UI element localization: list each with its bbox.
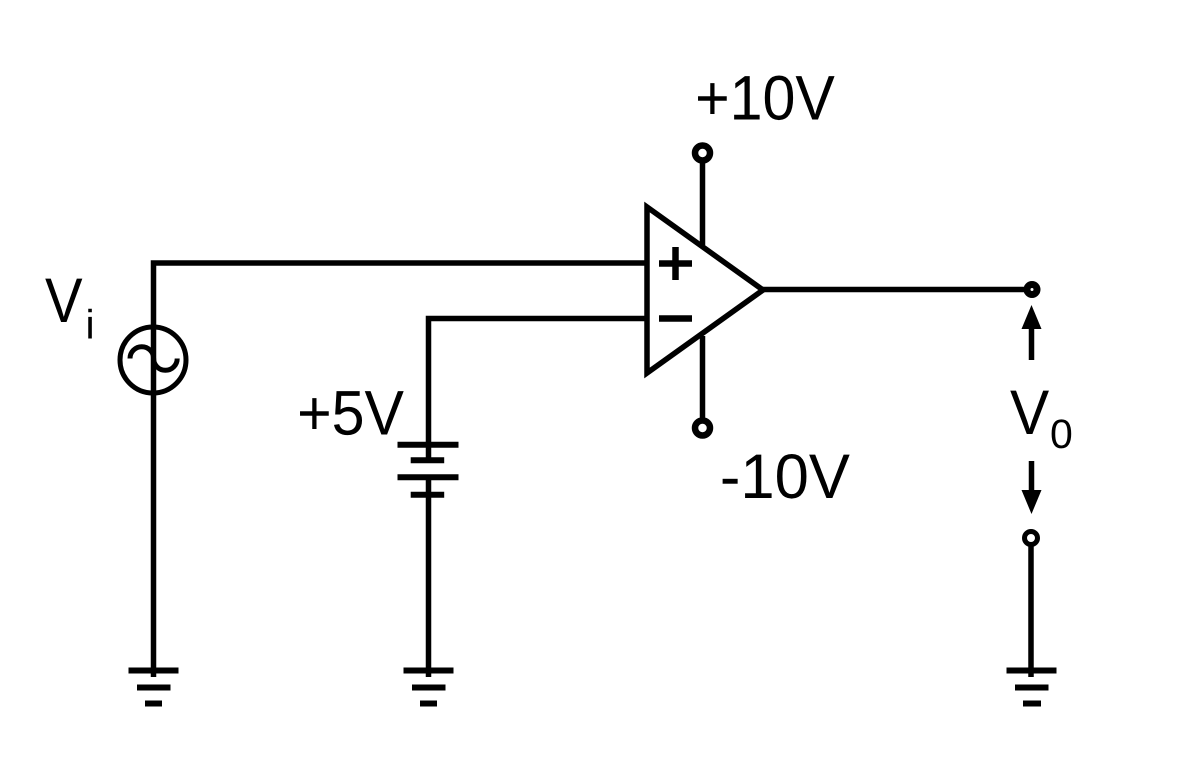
svg-text:+10V: +10V bbox=[695, 64, 835, 134]
svg-text:+5V: +5V bbox=[297, 379, 404, 449]
svg-text:V: V bbox=[45, 266, 83, 336]
svg-text:-10V: -10V bbox=[720, 442, 850, 512]
svg-text:V: V bbox=[1010, 378, 1049, 448]
svg-text:0: 0 bbox=[1050, 411, 1073, 457]
svg-text:i: i bbox=[86, 302, 95, 348]
